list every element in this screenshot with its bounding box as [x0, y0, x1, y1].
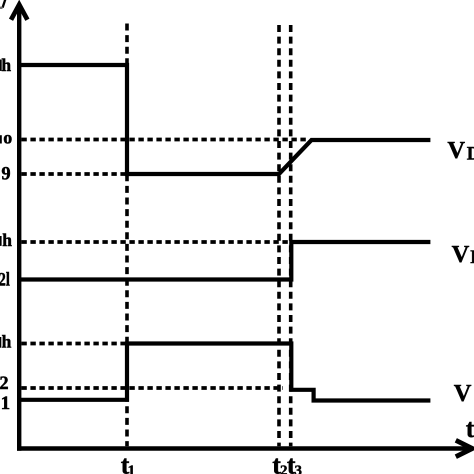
svg-text:V: V [452, 241, 470, 268]
svg-text:t: t [466, 414, 474, 443]
svg-text:V: V [447, 137, 465, 164]
svg-text:D: D [467, 144, 474, 164]
svg-text:o: o [3, 128, 12, 148]
svg-text:V: V [454, 380, 472, 407]
svg-text:2: 2 [0, 374, 9, 394]
svg-text:2l: 2l [0, 270, 10, 291]
svg-text:3: 3 [295, 463, 303, 474]
svg-text:D: D [470, 248, 474, 268]
svg-text:9: 9 [1, 165, 10, 185]
svg-text:h: h [1, 55, 11, 75]
svg-text:2: 2 [280, 463, 288, 474]
svg-text:h: h [2, 230, 12, 250]
svg-text:1: 1 [128, 463, 136, 474]
svg-text:1: 1 [1, 393, 11, 414]
svg-text:h: h [2, 332, 12, 352]
